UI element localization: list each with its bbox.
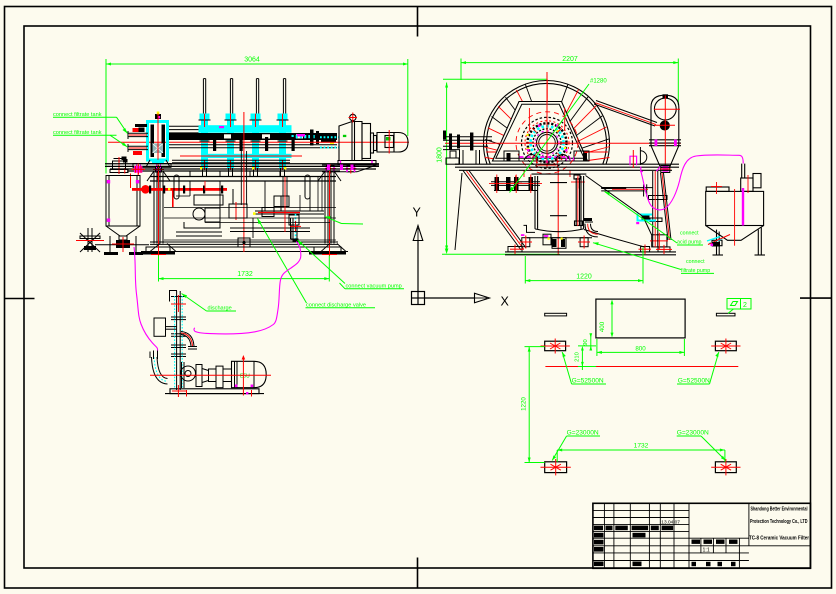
right manifold line bbox=[255, 196, 324, 239]
svg-text:connect: connect bbox=[680, 230, 699, 236]
red pipe centerline stubs bbox=[205, 114, 283, 170]
cyan coupling bbox=[638, 214, 657, 221]
disc spokes red bbox=[484, 80, 610, 161]
X axis line bbox=[425, 297, 476, 299]
svg-text:2: 2 bbox=[743, 302, 747, 309]
frame legs bbox=[141, 171, 348, 252]
anchor pad upper-left bbox=[545, 341, 737, 472]
manifold valves / pump bbox=[184, 189, 247, 228]
feed pipe support post bbox=[460, 150, 480, 164]
vat barrel bbox=[532, 174, 587, 232]
shaft lower line bbox=[168, 144, 337, 146]
svg-text:1220: 1220 bbox=[576, 273, 592, 280]
G load leaders bbox=[562, 352, 571, 384]
belt arm to pulley bbox=[594, 101, 657, 127]
left legs diagonals bbox=[455, 171, 526, 251]
magenta leader center bbox=[194, 242, 301, 335]
pipe support posts to deck bbox=[203, 168, 285, 177]
red lower pipe line bbox=[180, 155, 302, 157]
main shaft black band bbox=[168, 133, 338, 140]
coordinate origin box bbox=[412, 226, 490, 305]
feet bbox=[146, 247, 170, 252]
drain valve with wheel bottom-left bbox=[80, 228, 100, 252]
hub rings bbox=[516, 112, 578, 174]
red machine centerline bbox=[108, 141, 409, 143]
suction elbow bbox=[157, 357, 168, 379]
motor bbox=[232, 361, 267, 387]
svg-text:G=52500N: G=52500N bbox=[572, 378, 604, 385]
svg-text:TC-8 Ceramic Vacuum Filter: TC-8 Ceramic Vacuum Filter bbox=[749, 536, 810, 542]
magenta dash on shaft bbox=[297, 134, 305, 137]
foot gussets bbox=[150, 244, 346, 252]
dim 1220 bbox=[525, 248, 643, 284]
disc spokes black bbox=[485, 84, 609, 152]
pump body bbox=[181, 362, 232, 388]
svg-text:connect: connect bbox=[686, 259, 705, 265]
svg-text:G=23000N: G=23000N bbox=[567, 430, 599, 437]
svg-text:Protection Technology Co., LTD: Protection Technology Co., LTD bbox=[750, 519, 808, 525]
red cross on pipe top bbox=[171, 303, 186, 305]
top-right sole bar bbox=[716, 313, 735, 316]
title block small cell texts (CJK blobs) bbox=[594, 526, 738, 567]
deck left step bbox=[446, 151, 459, 164]
red centerlines bbox=[445, 142, 681, 144]
distributor head vessel bbox=[146, 112, 170, 181]
motor bbox=[377, 133, 408, 153]
feed pipe left bbox=[443, 137, 492, 150]
yellow port dots bbox=[168, 167, 286, 190]
dim 1732 bottom bbox=[557, 449, 725, 451]
detail-2 marker bbox=[727, 299, 751, 314]
dim 210 bbox=[581, 348, 583, 370]
red slurry manifold bbox=[132, 188, 227, 191]
tank magenta level tube bbox=[742, 188, 744, 226]
axle assembly left bbox=[491, 182, 540, 191]
inter-pipe tees bbox=[213, 137, 295, 151]
shaft end flanges bbox=[310, 130, 314, 146]
tank outlet marks bbox=[707, 237, 722, 244]
cyan dashed shaft end bbox=[292, 135, 321, 138]
damper cartridges bbox=[174, 175, 179, 199]
svg-text:3064: 3064 bbox=[244, 57, 260, 64]
ground level red line bbox=[545, 366, 738, 368]
small agitator pump left bbox=[110, 157, 131, 188]
magenta dash strip under hub bbox=[519, 156, 570, 158]
inner frame verticals bbox=[176, 151, 310, 238]
svg-text:90: 90 bbox=[583, 339, 589, 345]
under-vat structure bbox=[524, 225, 593, 248]
machine deck rails bbox=[105, 164, 379, 181]
title block grid lines bbox=[593, 503, 811, 568]
discharge elbow flange bbox=[585, 221, 593, 223]
red centerlines bbox=[150, 357, 271, 398]
tank red centerlines bbox=[711, 175, 748, 246]
company name bbox=[749, 507, 810, 542]
svg-text:1220: 1220 bbox=[521, 397, 528, 411]
red crosses under hub bbox=[509, 165, 585, 189]
dim 3064 bbox=[106, 59, 408, 174]
Y axis line bbox=[417, 240, 419, 292]
platform arm bbox=[601, 184, 653, 196]
stub leader left view bbox=[325, 217, 342, 224]
dim 1800 bbox=[442, 79, 560, 254]
X axis arrowhead bbox=[475, 293, 490, 303]
left slurry tank bbox=[95, 176, 149, 253]
svg-text:1732: 1732 bbox=[237, 271, 253, 278]
cyan vertical pipes bbox=[199, 119, 292, 168]
cyan upper manifold pipe bbox=[199, 125, 292, 133]
dim 800 bbox=[597, 351, 685, 353]
agitator drive bbox=[741, 178, 753, 191]
svg-text:1:1: 1:1 bbox=[703, 548, 710, 554]
base frame bbox=[150, 241, 338, 243]
bottom center drain box bbox=[238, 238, 250, 247]
hull curve bbox=[584, 176, 652, 248]
anchor cross marks red bbox=[541, 339, 741, 476]
anchor pad lower-right bbox=[715, 462, 736, 473]
gearbox bbox=[339, 114, 377, 160]
anchor pad upper-right bbox=[715, 341, 736, 351]
bearing pedestals bbox=[504, 151, 519, 161]
deck bbox=[455, 164, 679, 170]
dim 1732 left view bbox=[159, 278, 330, 280]
tank bottom valve bbox=[116, 240, 130, 248]
svg-text:210: 210 bbox=[575, 352, 581, 362]
trough bottom lines bbox=[172, 159, 290, 161]
magenta leader left bbox=[134, 247, 158, 351]
svg-text:13.04.07: 13.04.07 bbox=[661, 519, 680, 525]
four tie rods bbox=[203, 79, 285, 114]
vessel left feed pipes bbox=[128, 131, 148, 152]
right standpipe bbox=[575, 178, 577, 225]
magenta leader right view to tank bbox=[641, 155, 744, 210]
svg-text:400: 400 bbox=[599, 321, 606, 332]
cyan top flange boxes bbox=[200, 114, 288, 120]
svg-text:1732: 1732 bbox=[634, 443, 649, 450]
yellow specks bbox=[527, 130, 567, 150]
base pads with red crosses bbox=[508, 235, 670, 252]
right outlet elbow bbox=[181, 332, 194, 347]
svg-text:800: 800 bbox=[635, 346, 646, 353]
svg-text:E5U: E5U bbox=[240, 374, 250, 380]
anchor pad lower-left bbox=[545, 462, 567, 473]
top-left sole bar bbox=[545, 313, 735, 316]
dim 90 bbox=[590, 334, 592, 350]
svg-text:G=52500N: G=52500N bbox=[678, 378, 710, 385]
magenta coil marks bbox=[567, 156, 661, 171]
title block outer frame bbox=[593, 503, 811, 568]
Y axis arrowhead bbox=[413, 226, 423, 241]
cyan lower manifold pipe bbox=[203, 154, 292, 158]
svg-text:Y: Y bbox=[413, 206, 422, 220]
foundation dimensions bbox=[525, 299, 726, 462]
pipe flange ticks bbox=[199, 120, 289, 167]
svg-text:G=23000N: G=23000N bbox=[677, 430, 709, 437]
svg-text:#1280: #1280 bbox=[590, 78, 607, 84]
feed tank bbox=[706, 164, 765, 255]
svg-text:2207: 2207 bbox=[562, 56, 578, 63]
dim 1220 vertical bbox=[528, 347, 530, 463]
discharge standpipe bbox=[170, 290, 187, 390]
svg-text:1800: 1800 bbox=[437, 147, 444, 163]
dim 2207 bbox=[461, 59, 678, 106]
svg-text:X: X bbox=[501, 295, 510, 309]
base rail bbox=[505, 252, 676, 255]
disc wheel rim bbox=[484, 81, 610, 165]
vessel to manifold pipe lines bbox=[168, 126, 199, 133]
right support post bbox=[649, 171, 672, 247]
disc hood trapezoid bbox=[493, 102, 588, 162]
gearbox support bracket bbox=[322, 165, 379, 172]
dim 400 bbox=[611, 302, 613, 336]
svg-text:Shandong Better Environmental: Shandong Better Environmental bbox=[751, 507, 808, 513]
pulley housing bbox=[649, 94, 681, 167]
base plate bbox=[170, 389, 259, 394]
sight box bbox=[154, 318, 166, 336]
saddle under vessel bbox=[133, 164, 171, 173]
long mid rails bbox=[164, 177, 336, 241]
mid struts bbox=[189, 171, 191, 177]
foundation outline rectangle bbox=[596, 299, 685, 338]
gearbox base bbox=[338, 161, 376, 165]
